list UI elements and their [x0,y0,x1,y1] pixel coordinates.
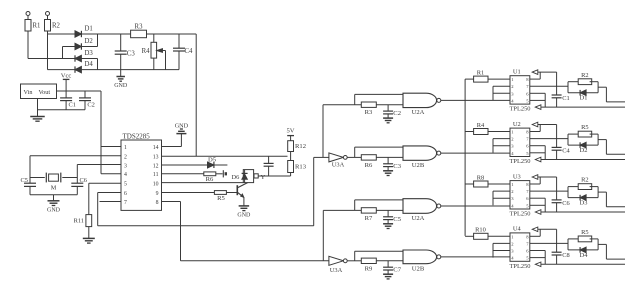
svg-text:11: 11 [153,172,159,178]
resistor R2 block1 [568,72,598,93]
ground row4 [383,274,393,279]
svg-text:U4: U4 [513,226,522,233]
wire row3 riser [323,210,361,260]
svg-text:U2A: U2A [412,215,425,222]
wire bottom rail block1 [541,106,625,108]
wire snubber out block2 [598,140,625,155]
wire row3 bypass loop [355,200,403,211]
svg-text:U3: U3 [513,173,521,180]
svg-text:C1: C1 [69,102,76,109]
wire R13 bottom to Y [258,173,290,177]
svg-text:GND: GND [47,207,61,213]
svg-text:TPL250: TPL250 [510,158,531,165]
capacitor C8 block4 [552,229,570,264]
svg-text:R4: R4 [477,122,485,129]
wire R12 R13 junction [290,152,292,161]
svg-text:D2: D2 [580,147,588,154]
terminal circle of R1 [26,12,30,20]
svg-text:R6: R6 [206,176,214,183]
wire pins 5 6 to rail block1 [530,93,545,107]
svg-text:R9: R9 [365,265,373,272]
diode D1 [75,26,93,38]
wire row1 bypass loop [355,94,403,104]
svg-text:TPL250: TPL250 [510,211,531,218]
resistor R10 block4 [465,227,510,240]
wire R2 down to D1 and D4 rows [48,31,76,70]
connector arrow bottom block1 [535,105,541,110]
crystal M [46,173,61,192]
wire U3A out to row4 [347,260,361,262]
diode D3 block3 [568,187,598,207]
NAND gate U2A row1 [403,93,441,116]
diode D2 block2 [568,134,598,154]
svg-text:D4: D4 [580,252,589,259]
wire bottom rail block3 [541,211,625,213]
capacitor C1 block1 [552,72,570,107]
svg-text:R12: R12 [295,143,306,150]
svg-text:C3: C3 [127,51,136,58]
svg-text:C4: C4 [562,147,570,154]
diode D4 block4 [568,239,598,259]
svg-text:2: 2 [124,154,127,160]
optocoupler U1 TPL250 block1 [510,68,531,112]
wire pin7 to snubber block4 [530,242,568,244]
optocoupler U2 TPL250 block2 [510,121,531,165]
svg-text:R3: R3 [365,109,373,116]
wire row4 bypass loop [355,251,403,261]
capacitor C3 [115,34,136,70]
svg-text:5V: 5V [286,127,294,134]
svg-text:C3: C3 [393,163,401,170]
capacitor across divider [264,156,274,176]
wire R3 to C4 corner [147,33,197,35]
resistor R3 row1 [361,102,403,116]
capacitor C4 [173,34,193,70]
resistor R2 block3 [568,177,598,198]
resistor R1 [25,20,40,32]
svg-text:Y: Y [261,174,266,181]
wire pin5 net [89,183,121,214]
svg-text:U1: U1 [513,68,521,75]
wire pin8 to arrow block4 [530,229,557,236]
wire pin8 net down and across [162,202,329,261]
wire Vout to Vcc rail [57,90,102,92]
resistor R6 [162,172,223,183]
svg-text:14: 14 [153,145,159,151]
wire Vcc down to pins 1 and 4 [101,91,121,174]
svg-text:GND: GND [237,213,251,219]
capacitor C7 row4 [383,261,402,274]
wire row2 gate output [441,152,510,154]
wire pin3 net to crystal [62,165,121,184]
svg-text:C6: C6 [562,200,569,207]
svg-text:C2: C2 [393,110,401,117]
capacitor C2 [79,91,95,110]
svg-text:U2B: U2B [412,162,425,169]
capacitor C2 row1 [383,105,401,118]
resistor R6 row2 [361,155,403,169]
wire pin10 net [162,182,244,184]
svg-text:C8: C8 [562,252,569,259]
svg-text:U3A: U3A [332,162,345,169]
svg-text:TPL250: TPL250 [510,106,531,113]
ground row3 [383,224,393,229]
wire snubber out block3 [598,192,625,207]
wire sense divider drop to pin13 net [195,34,197,156]
ground below crystal [47,201,61,214]
wire pins 5 6 to rail block3 [530,198,545,212]
connector arrow top block1 [532,70,538,75]
wire bottom rail D4 row [98,69,180,71]
svg-text:6: 6 [124,191,127,197]
capacitor C5 row3 [383,210,402,223]
svg-text:R1: R1 [477,69,484,76]
wire capacitor ground rail [38,99,86,117]
svg-text:U2: U2 [513,121,521,128]
resistor R3 [131,24,147,38]
svg-text:C5: C5 [393,216,401,223]
resistor R11 [74,215,92,227]
svg-text:5: 5 [124,182,127,188]
resistor R8 block3 [465,174,510,187]
svg-text:R4: R4 [142,48,151,55]
svg-text:1: 1 [124,145,127,151]
wire bottom rail block4 [541,263,625,265]
connector arrow top block3 [532,175,538,180]
capacitor C3 row2 [383,157,402,170]
svg-text:R8: R8 [477,174,484,181]
wire gate out to pins 2 3 block2 [493,139,510,153]
svg-text:GND: GND [114,83,128,89]
ground below R11 [83,227,95,244]
diode D2 [75,38,93,50]
wire pins 5 6 to rail block2 [530,146,545,160]
inverter U3A bottom [329,256,347,274]
resistor R5 block4 [568,229,598,250]
svg-text:C6: C6 [80,177,87,184]
resistor R12 [288,141,306,152]
wire gate out to pins 2 3 block3 [493,191,510,205]
inverter U3A top [314,153,347,169]
svg-text:R10: R10 [475,227,486,234]
svg-text:U3A: U3A [330,267,343,274]
svg-text:GND: GND [175,123,189,130]
svg-text:C5: C5 [21,177,28,184]
svg-text:R11: R11 [74,218,84,225]
svg-text:R5: R5 [581,229,588,236]
svg-text:13: 13 [153,154,159,160]
svg-text:C7: C7 [393,266,401,273]
connector arrow bottom block2 [535,157,541,162]
svg-text:C4: C4 [185,48,194,55]
wire pin13 net to divider [162,155,288,157]
wire pin6 net down and across [98,157,314,225]
wire row1 riser [323,105,361,158]
diode D4 [75,61,93,73]
ground row2 [383,171,393,176]
svg-text:Vcc: Vcc [61,72,72,79]
wire pin7 to snubber block1 [530,85,568,87]
wire row1 gate output [441,99,510,101]
svg-text:D3: D3 [85,50,94,57]
transistor Q1 [237,183,247,206]
connector arrow top block2 [532,122,538,127]
ground row1 [383,118,393,123]
resistor R5 [162,191,237,202]
wire crystal ground rail [30,195,77,201]
connector arrow top block4 [532,227,538,232]
NAND gate U2A row3 [403,199,441,222]
svg-text:R2: R2 [581,72,588,79]
svg-text:R3: R3 [135,24,144,31]
capacitor C1 [60,91,76,110]
wire snubber out block1 [598,87,625,102]
capacitor C5 [21,177,36,195]
wire top rail to R3 [98,33,131,35]
wire snubber out block4 [598,244,625,259]
power symbol Vcc [61,72,72,91]
NAND gate U2B row2 [403,146,441,169]
svg-text:C2: C2 [87,102,94,109]
svg-text:R5: R5 [217,195,225,202]
resistor R2 [45,20,61,32]
wire feedback bus vertical [464,79,466,236]
resistor R1 block1 [465,69,510,82]
svg-text:R6: R6 [365,162,373,169]
resistor R7 row3 [361,208,403,222]
svg-text:R2: R2 [581,177,588,184]
diode D1 block1 [568,82,598,102]
wire gate out to pins 2 3 block1 [493,86,510,100]
svg-text:TPL250: TPL250 [510,263,531,270]
potentiometer R4 [142,34,166,70]
svg-text:R7: R7 [365,215,373,222]
wire row2 bypass loop [355,147,403,157]
capacitor C6 [71,177,87,195]
wire pin2 net to crystal [30,156,121,183]
ground below transistor [237,206,251,219]
resistor R5 block2 [568,124,598,145]
svg-text:Vin: Vin [24,89,33,96]
wire D2 left tie [63,47,76,59]
wire gate out to pins 2 3 block4 [493,243,510,257]
wire pin8 to arrow block2 [530,125,557,132]
svg-text:D5: D5 [208,157,217,164]
svg-text:U2A: U2A [412,109,425,116]
wire pin14 to ground [162,134,182,147]
wire pins 5 6 to rail block4 [530,251,545,265]
capacitor C6 block3 [552,177,570,212]
wire row3 gate output [441,205,510,207]
connector arrow bottom block4 [535,262,541,267]
resistor R4 block2 [465,122,510,135]
svg-text:R1: R1 [33,23,41,30]
ground below C3 [114,70,128,90]
svg-text:Vout: Vout [39,89,51,96]
wire U3A out to row2 [347,156,361,158]
svg-text:9: 9 [156,191,159,197]
svg-text:10: 10 [153,182,159,188]
diode D5 [162,157,228,169]
svg-text:C1: C1 [562,95,569,102]
wire pin7 to snubber block3 [530,190,568,192]
svg-text:TDS2285: TDS2285 [123,133,151,141]
NAND gate U2B row4 [403,250,441,272]
svg-text:12: 12 [153,163,159,169]
svg-text:D1: D1 [580,95,588,102]
opto package Y with LED D6 [231,170,265,183]
wire pin8 to arrow block1 [530,72,557,79]
resistor R9 row4 [361,258,403,272]
capacitor C4 block2 [552,125,571,160]
svg-text:D1: D1 [85,26,93,33]
optocoupler U3 TPL250 block3 [510,173,531,217]
terminal circle of R2 [46,12,50,20]
svg-text:M: M [51,185,57,192]
svg-text:R13: R13 [295,164,307,171]
IC U5 TDS2285 [121,133,162,211]
wire pin8 to arrow block3 [530,177,557,184]
resistor R13 [288,161,307,173]
power symbol 5V [286,127,294,140]
svg-text:7: 7 [124,200,127,206]
diode D3 [75,50,93,62]
ground GND above pin14 [175,123,189,134]
wire R1 to D3 row [28,31,75,59]
svg-text:D3: D3 [580,200,588,207]
svg-text:8: 8 [156,200,159,206]
svg-text:R2: R2 [52,23,61,30]
wire pin7 to snubber block2 [530,138,568,140]
wire pin7 stub [100,201,122,203]
ground below regulator [30,117,45,122]
optocoupler U4 TPL250 block4 [510,226,531,270]
svg-text:U2B: U2B [412,265,425,272]
wire diode right ties node [81,34,97,70]
connector arrow bottom block3 [535,210,541,215]
svg-text:R5: R5 [581,124,588,131]
svg-text:D2: D2 [85,38,94,45]
svg-text:4: 4 [124,172,127,178]
wire row4 gate output [441,256,510,258]
voltage regulator Vin Vout [21,84,57,99]
microphone transducer [223,170,226,177]
svg-text:D4: D4 [85,61,94,68]
wire bottom rail block2 [541,159,625,161]
svg-text:D6: D6 [231,174,239,181]
svg-text:3: 3 [124,163,127,169]
